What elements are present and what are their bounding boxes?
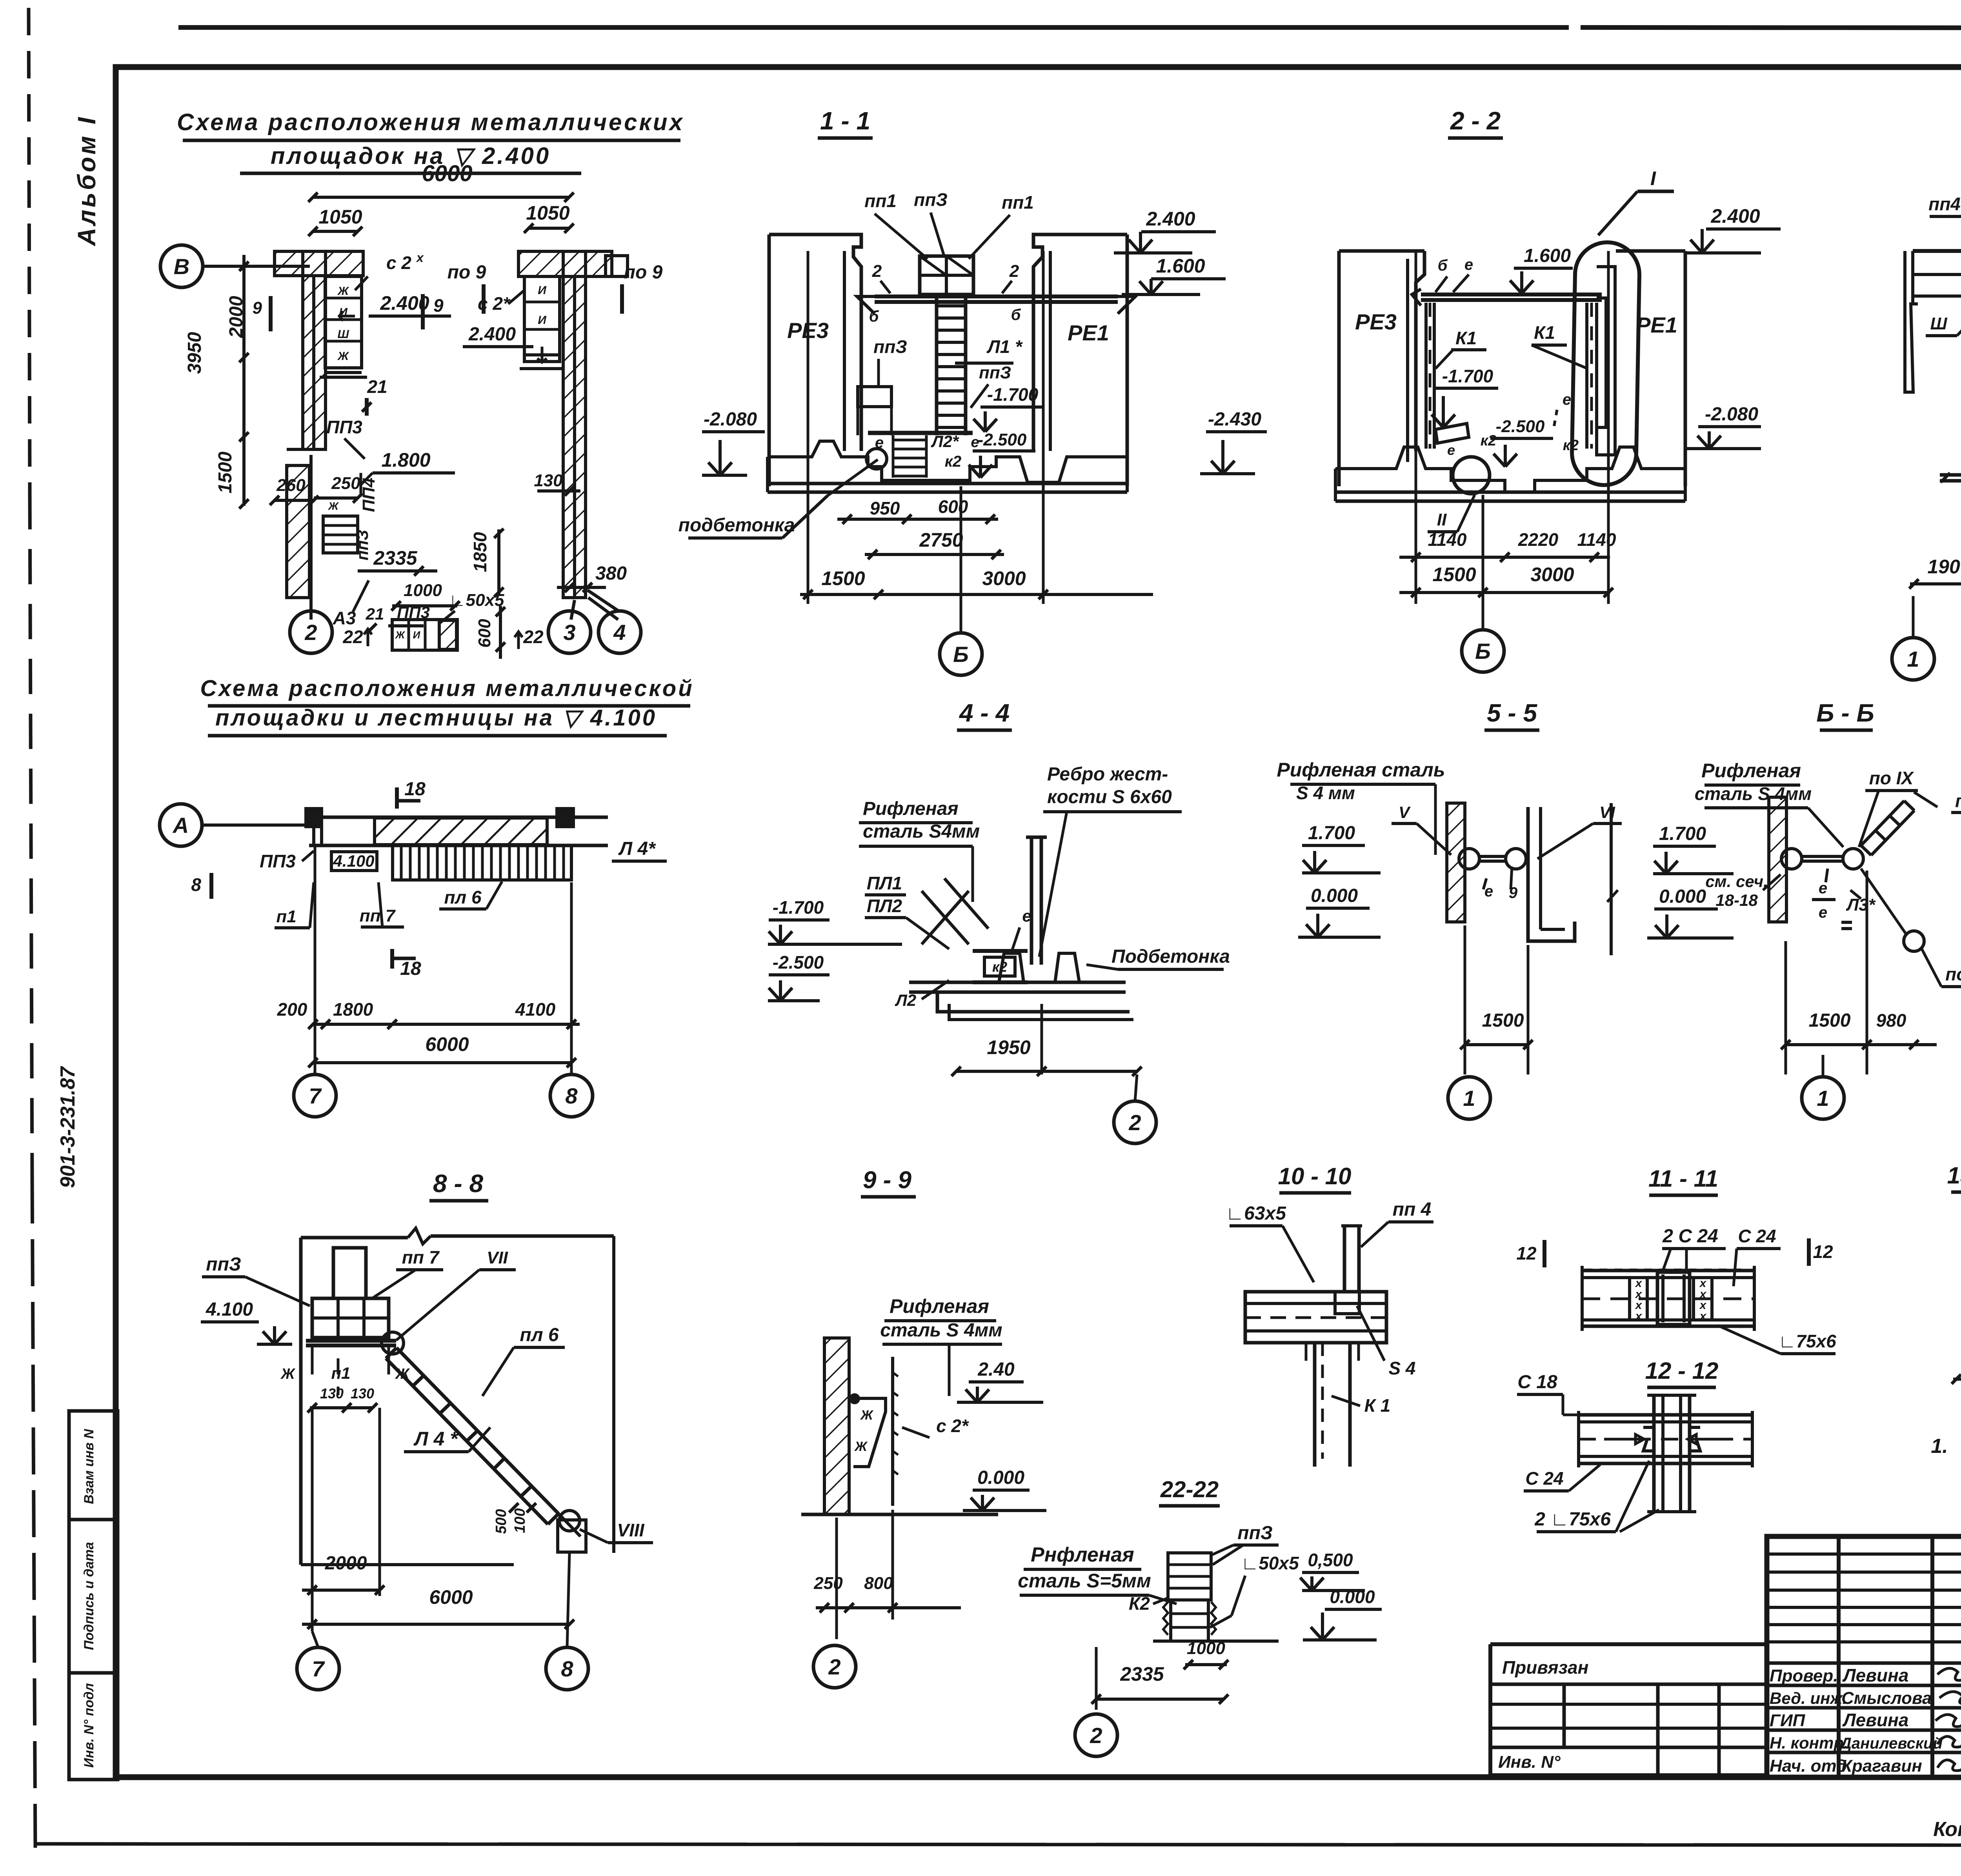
svg-text:Левина: Левина bbox=[1842, 1665, 1908, 1685]
top tie beam bbox=[1421, 293, 1602, 296]
svg-text:К1: К1 bbox=[1455, 328, 1477, 348]
platform beam at 1.600 bbox=[875, 294, 1118, 298]
svg-text:1500: 1500 bbox=[215, 451, 236, 493]
svg-text:Инв. N° подл: Инв. N° подл bbox=[82, 1683, 96, 1768]
svg-text:2: 2 bbox=[872, 262, 882, 281]
node circle II bbox=[1453, 457, 1490, 494]
svg-text:I: I bbox=[1650, 167, 1656, 189]
ground edge 8-8 bbox=[301, 1563, 514, 1566]
svg-text:∟50х5: ∟50х5 bbox=[1241, 1553, 1299, 1573]
boxed level 4.100 bbox=[331, 852, 377, 871]
svg-text:к2: к2 bbox=[1563, 437, 1579, 454]
axis 2 circle 22-22 bbox=[1075, 1714, 1117, 1756]
foundation profile bbox=[768, 441, 1127, 482]
svg-text:2.400: 2.400 bbox=[1710, 205, 1760, 227]
stair foot node bbox=[559, 1511, 580, 1531]
svg-text:4: 4 bbox=[613, 620, 626, 645]
svg-text:РЕ3: РЕ3 bbox=[1355, 309, 1397, 334]
svg-text:8: 8 bbox=[565, 1083, 578, 1108]
svg-text:2: 2 bbox=[1090, 1723, 1102, 1748]
svg-text:3: 3 bbox=[563, 620, 575, 645]
svg-text:по 9: по 9 bbox=[624, 262, 663, 283]
verticals to dim 8-8 bbox=[311, 1408, 314, 1631]
svg-text:п1: п1 bbox=[276, 907, 296, 926]
svg-text:9: 9 bbox=[253, 298, 262, 318]
svg-text:Ж: Ж bbox=[280, 1366, 295, 1382]
svg-text:с 2: с 2 bbox=[386, 253, 411, 273]
svg-text:пп 7: пп 7 bbox=[402, 1247, 440, 1267]
svg-text:кости S 6х60: кости S 6х60 bbox=[1047, 787, 1172, 807]
svg-text:1500: 1500 bbox=[1432, 564, 1476, 585]
svg-text:21: 21 bbox=[366, 605, 384, 623]
svg-text:б: б bbox=[1011, 306, 1021, 324]
svg-text:2.40: 2.40 bbox=[977, 1359, 1015, 1380]
svg-text:Л2*: Л2* bbox=[931, 432, 959, 451]
svg-text:18: 18 bbox=[404, 779, 426, 800]
inner bracket of capsule bbox=[1597, 267, 1615, 455]
svg-text:0,500: 0,500 bbox=[1308, 1550, 1353, 1570]
svg-text:1000: 1000 bbox=[404, 581, 442, 600]
svg-text:-1.700: -1.700 bbox=[1442, 366, 1493, 386]
svg-text:500: 500 bbox=[493, 1509, 509, 1534]
svg-text:130: 130 bbox=[351, 1385, 374, 1402]
wall hatched Б-Б bbox=[1769, 797, 1786, 922]
svg-text:ПП3: ПП3 bbox=[260, 851, 296, 871]
mid platform box bbox=[858, 387, 891, 407]
axis 2 circle 9-9 bbox=[813, 1645, 856, 1688]
title block signature rows bbox=[1767, 1661, 1961, 1665]
svg-text:Привязан: Привязан bbox=[1502, 1657, 1588, 1678]
svg-text:Копировал: Копировал bbox=[1933, 1818, 1961, 1841]
axis 1 circle Б-Б bbox=[1802, 1077, 1844, 1119]
svg-text:Подпись и дата: Подпись и дата bbox=[82, 1542, 96, 1650]
capsule detail boundary bbox=[1572, 242, 1640, 486]
svg-text:2000: 2000 bbox=[325, 1553, 367, 1574]
svg-text:пл 6: пл 6 bbox=[520, 1325, 559, 1345]
bottom platform box bbox=[392, 620, 457, 650]
svg-text:е: е bbox=[1022, 907, 1031, 925]
svg-text:10 - 10: 10 - 10 bbox=[1278, 1163, 1352, 1189]
node по X circle bbox=[1904, 931, 1924, 951]
stack drawing 22-22 bbox=[1168, 1553, 1211, 1600]
svg-text:-2.430: -2.430 bbox=[1208, 409, 1261, 430]
svg-text:к2: к2 bbox=[1481, 433, 1496, 449]
serrated vertical 9-9 bbox=[891, 1357, 894, 1506]
svg-text:1950: 1950 bbox=[987, 1036, 1030, 1058]
svg-text:с 2*: с 2* bbox=[478, 293, 511, 314]
svg-text:Нач. отд: Нач. отд bbox=[1770, 1756, 1847, 1776]
svg-text:6000: 6000 bbox=[425, 1033, 469, 1055]
right wall vertical hatched bbox=[563, 251, 586, 598]
svg-text:3000: 3000 bbox=[1530, 564, 1574, 585]
axis Б circle 2 bbox=[1462, 630, 1504, 672]
svg-text:4 - 4: 4 - 4 bbox=[959, 699, 1010, 727]
svg-text:VII: VII bbox=[487, 1248, 508, 1267]
svg-text:Л 4 *: Л 4 * bbox=[413, 1428, 458, 1450]
svg-text:2: 2 bbox=[1128, 1110, 1141, 1135]
svg-text:ппЗ: ппЗ bbox=[979, 363, 1011, 382]
svg-text:-2.500: -2.500 bbox=[773, 952, 824, 973]
svg-text:3950: 3950 bbox=[184, 332, 205, 374]
svg-text:с 2*: с 2* bbox=[936, 1416, 969, 1436]
svg-text:8: 8 bbox=[561, 1656, 573, 1681]
node circle at foundation bbox=[866, 449, 887, 469]
svg-text:пп4: пп4 bbox=[1928, 194, 1961, 214]
svg-text:б: б bbox=[1438, 257, 1448, 274]
svg-text:12: 12 bbox=[1813, 1242, 1833, 1262]
svg-text:2000: 2000 bbox=[226, 296, 247, 338]
svg-text:1050: 1050 bbox=[526, 202, 569, 224]
svg-text:600: 600 bbox=[475, 619, 494, 648]
small box below node bbox=[558, 1520, 586, 1552]
svg-text:С 24: С 24 bbox=[1525, 1468, 1563, 1489]
svg-text:Инв. N°: Инв. N° bbox=[1498, 1752, 1561, 1772]
left margin stamp boxes bbox=[69, 1411, 118, 1780]
svg-text:х: х bbox=[1635, 1310, 1643, 1323]
svg-text:Левина: Левина bbox=[1842, 1710, 1908, 1730]
signature squiggles bbox=[1937, 1668, 1961, 1685]
column 12-12 bbox=[1652, 1395, 1656, 1512]
svg-text:2335: 2335 bbox=[1120, 1663, 1164, 1685]
svg-text:3000: 3000 bbox=[982, 567, 1026, 589]
svg-text:2 - 2: 2 - 2 bbox=[1450, 107, 1501, 135]
sheet outer top edge line bbox=[178, 25, 1569, 30]
svg-text:2 ∟75х6: 2 ∟75х6 bbox=[1534, 1509, 1611, 1530]
svg-text:980: 980 bbox=[1876, 1010, 1906, 1031]
small stair bottom bbox=[893, 439, 926, 442]
svg-text:-2.500: -2.500 bbox=[1496, 417, 1545, 436]
svg-text:4100: 4100 bbox=[515, 999, 556, 1020]
svg-text:-1.700: -1.700 bbox=[773, 897, 824, 918]
svg-text:Л1 *: Л1 * bbox=[986, 336, 1023, 357]
svg-text:2750: 2750 bbox=[919, 529, 963, 551]
hatched deck strip bbox=[375, 818, 547, 845]
axis 3 circle bbox=[548, 611, 591, 653]
wall axis verticals bbox=[312, 274, 315, 449]
svg-text:1500: 1500 bbox=[1809, 1010, 1851, 1031]
column K1 10-10 bbox=[1313, 1343, 1317, 1467]
svg-text:Ж: Ж bbox=[337, 285, 349, 298]
svg-text:Ж: Ж bbox=[337, 350, 349, 363]
svg-text:1: 1 bbox=[1463, 1086, 1475, 1111]
svg-text:21: 21 bbox=[367, 376, 387, 397]
svg-text:по Х: по Х bbox=[1945, 964, 1961, 984]
ground line 3-3 bbox=[1940, 473, 1961, 477]
splice plates with bolts bbox=[1628, 1278, 1631, 1320]
svg-text:Рифленая сталь: Рифленая сталь bbox=[1277, 759, 1445, 781]
svg-text:100: 100 bbox=[512, 1508, 528, 1533]
svg-text:Подбетонка: Подбетонка bbox=[1111, 946, 1230, 967]
wall fragment left bbox=[1905, 251, 1918, 392]
svg-text:ПП4: ПП4 bbox=[359, 478, 378, 512]
svg-text:380: 380 bbox=[595, 563, 627, 584]
column K1 right dashed strip bbox=[1585, 303, 1588, 449]
svg-text:1800: 1800 bbox=[333, 999, 373, 1020]
svg-text:Провер.: Провер. bbox=[1770, 1666, 1838, 1685]
axis 2 circle bbox=[290, 611, 332, 653]
platform grid 8-8 bbox=[312, 1298, 389, 1338]
svg-text:К2: К2 bbox=[1129, 1593, 1150, 1614]
svg-text:1.800: 1.800 bbox=[381, 449, 430, 471]
title block left grid thin rows bbox=[1767, 1552, 1961, 1556]
svg-text:Б - Б: Б - Б bbox=[1816, 699, 1874, 727]
svg-text:С 18: С 18 bbox=[1517, 1372, 1557, 1392]
axis 8 circle bbox=[550, 1074, 593, 1117]
deck left part bbox=[312, 817, 315, 845]
svg-text:подбетонка: подбетонка bbox=[679, 515, 795, 536]
svg-text:Рнфленая: Рнфленая bbox=[1031, 1543, 1134, 1566]
axis lines vertical bbox=[807, 251, 810, 604]
axis Б circle bbox=[940, 633, 982, 675]
svg-text:-2.500: -2.500 bbox=[978, 430, 1027, 449]
svg-text:1140: 1140 bbox=[1428, 529, 1467, 550]
svg-text:пл 3: пл 3 bbox=[1955, 791, 1961, 811]
title block left grid columns bbox=[1837, 1536, 1841, 1777]
sheet outer left dashed line bbox=[29, 8, 30, 494]
svg-text:Ш: Ш bbox=[337, 328, 349, 341]
svg-text:2.400: 2.400 bbox=[468, 324, 516, 345]
left wall lower offset hatched bbox=[287, 465, 309, 598]
svg-text:12: 12 bbox=[1516, 1243, 1537, 1263]
svg-text:-2.080: -2.080 bbox=[704, 409, 757, 430]
tank РЕ3 outline bbox=[1339, 249, 1424, 253]
svg-text:130: 130 bbox=[320, 1385, 344, 1402]
svg-text:С 24: С 24 bbox=[1738, 1226, 1776, 1246]
beam body 11-11 bbox=[1582, 1269, 1754, 1272]
wall hatched 5-5 bbox=[1447, 803, 1465, 922]
tank РЕ1 outline bbox=[1616, 249, 1685, 253]
svg-text:ПЛ1: ПЛ1 bbox=[867, 873, 902, 893]
svg-text:600: 600 bbox=[938, 496, 968, 517]
axis 7 circle bbox=[294, 1074, 336, 1117]
svg-text:1900: 1900 bbox=[1927, 556, 1961, 578]
ladder cap box bbox=[920, 256, 973, 294]
svg-text:∟50х5: ∟50х5 bbox=[449, 591, 504, 610]
svg-text:пп 4: пп 4 bbox=[1393, 1199, 1432, 1220]
right wall pilaster box bbox=[606, 256, 628, 276]
svg-text:ппЗ: ппЗ bbox=[914, 189, 948, 210]
stair 8-8 bbox=[397, 1348, 558, 1514]
svg-text:Рифленая: Рифленая bbox=[890, 1295, 989, 1317]
svg-text:II: II bbox=[1437, 510, 1447, 529]
svg-text:2: 2 bbox=[828, 1654, 840, 1679]
center column 2C24 bbox=[1657, 1272, 1690, 1325]
svg-text:1.700: 1.700 bbox=[1308, 823, 1355, 843]
svg-text:РЕ1: РЕ1 bbox=[1068, 320, 1109, 345]
svg-text:по IX: по IX bbox=[1869, 768, 1914, 788]
ladder piece Б-Б bbox=[1861, 801, 1904, 845]
svg-text:Ж: Ж bbox=[395, 629, 406, 641]
bracket on beam bbox=[1335, 1292, 1359, 1314]
left platform box with rungs bbox=[325, 276, 362, 368]
svg-text:VIII: VIII bbox=[617, 1520, 644, 1540]
section mark 9 left bbox=[269, 296, 273, 331]
svg-text:Рифленая: Рифленая bbox=[863, 798, 959, 819]
svg-text:ПП3: ПП3 bbox=[326, 417, 362, 437]
small table Привязан bbox=[1490, 1642, 1767, 1646]
rod and nodes Б-Б bbox=[1781, 849, 1802, 869]
platform plan bar bbox=[309, 816, 608, 819]
пп4 post 10-10 bbox=[1343, 1226, 1346, 1292]
svg-text:6000: 6000 bbox=[422, 161, 472, 186]
svg-text:18: 18 bbox=[400, 958, 421, 979]
svg-text:5 - 5: 5 - 5 bbox=[1487, 699, 1537, 727]
svg-text:22-22: 22-22 bbox=[1160, 1477, 1219, 1502]
svg-text:по 9: по 9 bbox=[448, 262, 486, 283]
axis A circle bbox=[160, 804, 202, 846]
svg-text:1050: 1050 bbox=[318, 206, 362, 228]
svg-text:В: В bbox=[174, 254, 189, 279]
svg-text:Ребро жест-: Ребро жест- bbox=[1047, 764, 1168, 785]
svg-text:2220: 2220 bbox=[1518, 529, 1559, 550]
svg-text:1850: 1850 bbox=[470, 532, 490, 572]
left wedge bracket bbox=[1435, 424, 1469, 443]
svg-text:пп1: пп1 bbox=[864, 191, 897, 211]
svg-text:е: е bbox=[1464, 256, 1473, 273]
svg-text:9 - 9: 9 - 9 bbox=[863, 1167, 912, 1194]
svg-text:площадок на ▽ 2.400: площадок на ▽ 2.400 bbox=[271, 143, 551, 169]
svg-text:V: V bbox=[1399, 803, 1411, 822]
splice arrows bbox=[1604, 1434, 1644, 1444]
axis B circle bbox=[160, 245, 203, 287]
deck lines 8-8 bbox=[306, 1339, 396, 1343]
right wall top corner hatched bbox=[518, 251, 612, 276]
svg-text:1140: 1140 bbox=[1577, 529, 1616, 550]
svg-text:1: 1 bbox=[1907, 647, 1919, 671]
svg-text:е: е bbox=[1819, 904, 1827, 921]
platform к2 region bbox=[973, 949, 1028, 953]
lower stack bbox=[1171, 1600, 1208, 1641]
svg-text:11 - 11: 11 - 11 bbox=[1648, 1165, 1718, 1192]
svg-text:И: И bbox=[538, 284, 547, 297]
svg-text:200: 200 bbox=[277, 999, 307, 1020]
top wall line with break bbox=[301, 1236, 408, 1240]
svg-text:1000: 1000 bbox=[1187, 1639, 1225, 1658]
section mark 9 right bbox=[421, 294, 425, 329]
svg-text:-1.700: -1.700 bbox=[987, 384, 1039, 405]
section mark 8 bbox=[209, 873, 213, 899]
svg-text:х: х bbox=[1699, 1310, 1707, 1323]
axis 8 circle 8-8 bbox=[546, 1647, 588, 1690]
axis 2 circle 4-4 bbox=[1114, 1101, 1156, 1143]
wall hatched 9-9 bbox=[824, 1338, 849, 1514]
svg-text:2: 2 bbox=[1009, 262, 1019, 281]
svg-text:И: И bbox=[413, 629, 421, 641]
right platform box with rungs bbox=[524, 276, 560, 362]
svg-text:сталь S 4мм: сталь S 4мм bbox=[880, 1320, 1002, 1341]
svg-text:7: 7 bbox=[309, 1083, 322, 1108]
svg-text:Л 4*: Л 4* bbox=[618, 838, 656, 859]
left end posts bbox=[306, 809, 322, 827]
svg-text:130: 130 bbox=[534, 471, 563, 490]
svg-text:22: 22 bbox=[523, 627, 544, 647]
svg-text:ппЗ: ппЗ bbox=[1237, 1523, 1272, 1543]
svg-text:13 - 13: 13 - 13 bbox=[1947, 1162, 1961, 1189]
svg-text:2.400: 2.400 bbox=[1146, 208, 1195, 230]
svg-text:1500: 1500 bbox=[1482, 1010, 1524, 1031]
ground 9-9 bbox=[801, 1513, 998, 1516]
svg-text:250: 250 bbox=[331, 474, 360, 493]
svg-text:901-3-231.87: 901-3-231.87 bbox=[56, 1066, 79, 1188]
svg-text:800: 800 bbox=[864, 1574, 893, 1593]
svg-text:2: 2 bbox=[304, 620, 317, 645]
svg-text:Взам инв N: Взам инв N bbox=[82, 1429, 96, 1504]
beam 12-12 bbox=[1579, 1413, 1752, 1417]
left wall vertical hatched bbox=[303, 251, 326, 449]
svg-text:К1: К1 bbox=[1534, 322, 1555, 343]
svg-text:260: 260 bbox=[276, 476, 306, 495]
sheet outer bottom line bbox=[35, 1844, 1961, 1845]
svg-text:∟75х6: ∟75х6 bbox=[1778, 1331, 1836, 1351]
svg-text:Б: Б bbox=[1475, 639, 1491, 664]
axis verticals 2-2 bbox=[1415, 251, 1417, 604]
svg-text:0.000: 0.000 bbox=[1330, 1587, 1375, 1607]
svg-text:6000: 6000 bbox=[429, 1586, 473, 1608]
axis 4 circle bbox=[598, 611, 641, 653]
rod and nodes 5-5 bbox=[1459, 849, 1479, 869]
tank РЕ3 left outline bbox=[769, 234, 861, 451]
svg-text:1.: 1. bbox=[1931, 1435, 1948, 1458]
svg-text:Ж: Ж bbox=[860, 1408, 874, 1423]
svg-text:1500: 1500 bbox=[821, 567, 865, 589]
svg-text:Ж: Ж bbox=[854, 1439, 868, 1454]
пп7 column box bbox=[333, 1248, 366, 1298]
bracket 9-9 bbox=[853, 1398, 886, 1467]
foundation profile 2-2 bbox=[1335, 447, 1685, 492]
svg-text:2335: 2335 bbox=[373, 547, 417, 569]
svg-text:е: е bbox=[1447, 442, 1455, 458]
svg-text:4.100: 4.100 bbox=[333, 852, 374, 870]
left wall top corner hatched bbox=[275, 251, 363, 276]
tank РЕ1 right outline bbox=[1033, 234, 1127, 451]
column K1 left dashed strip bbox=[1424, 303, 1428, 449]
svg-text:ГИП: ГИП bbox=[1770, 1711, 1806, 1730]
svg-text:А: А bbox=[172, 813, 189, 838]
svg-text:8 - 8: 8 - 8 bbox=[433, 1169, 483, 1198]
svg-text:1.600: 1.600 bbox=[1524, 245, 1571, 266]
svg-text:18-18: 18-18 bbox=[1715, 891, 1758, 909]
svg-text:950: 950 bbox=[870, 498, 900, 518]
svg-text:см. сеч.: см. сеч. bbox=[1705, 872, 1768, 891]
svg-text:0.000: 0.000 bbox=[1659, 886, 1706, 907]
svg-text:VI: VI bbox=[1599, 803, 1615, 822]
axis 1 circle 3-3 bbox=[1892, 638, 1934, 680]
svg-text:1: 1 bbox=[1817, 1086, 1829, 1111]
svg-text:РЕ1: РЕ1 bbox=[1636, 313, 1677, 337]
equals mark bbox=[1841, 921, 1852, 924]
svg-text:И: И bbox=[538, 314, 547, 327]
beam 10-10 bbox=[1245, 1292, 1386, 1343]
axis 7 circle 8-8 bbox=[297, 1647, 339, 1690]
foundation 4-4 bbox=[999, 953, 1024, 982]
svg-text:ппЗ: ппЗ bbox=[353, 530, 371, 560]
channel profile right bbox=[1528, 807, 1575, 941]
svg-text:б: б bbox=[869, 308, 879, 325]
svg-text:Крагавин: Крагавин bbox=[1841, 1756, 1922, 1776]
svg-text:пп1: пп1 bbox=[1002, 192, 1034, 213]
svg-text:ппЗ: ппЗ bbox=[873, 336, 907, 357]
svg-text:Схема расположения металлическ: Схема расположения металлических bbox=[177, 109, 684, 135]
svg-text:1 - 1: 1 - 1 bbox=[820, 107, 870, 135]
svg-text:к2: к2 bbox=[945, 453, 962, 470]
ladder пл6 comb bbox=[393, 845, 571, 880]
svg-text:Схема расположения металличе: Схема расположения металлической bbox=[200, 676, 694, 701]
platform at -2.500 bbox=[868, 431, 973, 435]
svg-text:1.600: 1.600 bbox=[1156, 255, 1205, 277]
svg-text:ппЗ: ппЗ bbox=[206, 1254, 241, 1275]
svg-text:Смыслова: Смыслова bbox=[1841, 1689, 1932, 1708]
svg-text:пп 7: пп 7 bbox=[360, 906, 396, 925]
